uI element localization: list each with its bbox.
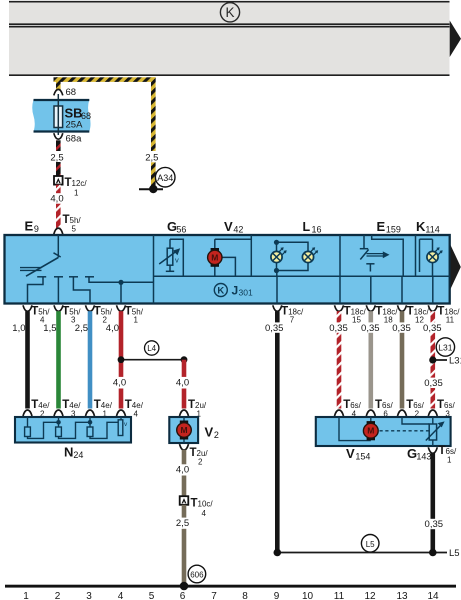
dashed coupling V154 to G143 — [380, 430, 430, 432]
svg-text:T: T — [407, 305, 414, 317]
node K circle label — [220, 3, 239, 22]
svg-text:V: V — [224, 219, 233, 234]
svg-text:K: K — [217, 286, 224, 297]
svg-text:68a: 68a — [66, 134, 83, 145]
svg-text:T: T — [344, 305, 351, 317]
svg-text:T: T — [406, 399, 413, 411]
lamp K114 wiring — [420, 238, 433, 240]
svg-text:0,35: 0,35 — [423, 323, 442, 334]
connector T12c/1 — [54, 176, 63, 185]
blower motor V2 box — [169, 417, 198, 443]
E9 contact 4 and output rail — [85, 276, 94, 278]
svg-text:T: T — [439, 445, 446, 457]
svg-text:154: 154 — [355, 452, 370, 462]
svg-text:14: 14 — [427, 591, 439, 600]
svg-text:T: T — [63, 214, 70, 226]
svg-text:10c/: 10c/ — [198, 499, 214, 508]
lamp L16 left — [271, 251, 282, 262]
motor V2 — [180, 421, 188, 425]
pin T4e/2 — [23, 410, 32, 416]
pin T6s/6 — [366, 410, 375, 416]
sensor G143 element — [432, 417, 434, 424]
svg-text:T: T — [94, 399, 101, 411]
lamp L16 right — [302, 251, 313, 262]
node L4 circle label — [145, 341, 159, 355]
svg-text:2: 2 — [55, 591, 61, 600]
wire red L4 to T2u/1 — [182, 360, 187, 378]
positioning motor V154 / sensor G143 box — [316, 417, 451, 446]
pin T18c/15 — [335, 305, 344, 311]
wire from T18c/18 — [369, 311, 374, 408]
node L31 junction — [433, 359, 447, 361]
motor V42 — [215, 238, 252, 240]
svg-text:68: 68 — [66, 87, 77, 98]
control unit J301 box — [5, 235, 450, 304]
svg-text:2,5: 2,5 — [75, 323, 88, 334]
svg-text:143: 143 — [416, 452, 431, 462]
svg-text:606: 606 — [190, 570, 204, 579]
svg-text:M: M — [367, 426, 374, 436]
pin T18c/11 — [428, 305, 437, 311]
svg-text:1: 1 — [134, 315, 139, 324]
svg-text:2,5: 2,5 — [145, 152, 158, 163]
svg-text:2,5: 2,5 — [50, 152, 63, 163]
harness band upper — [9, 2, 450, 25]
svg-text:4,0: 4,0 — [50, 194, 63, 205]
wire size label 4,0 — [48, 193, 66, 203]
svg-text:7: 7 — [290, 315, 295, 324]
wire size label 0,35 below L31 — [422, 378, 445, 388]
svg-text:T: T — [375, 305, 382, 317]
svg-text:T: T — [281, 305, 288, 317]
resistor pack N24 box — [15, 417, 131, 443]
wire black/red from fuse to T12c — [56, 140, 61, 151]
continuation arrow right of J301 — [451, 245, 461, 289]
svg-text:v: v — [175, 256, 179, 265]
svg-text:T: T — [62, 399, 69, 411]
N24 internal wiring — [27, 417, 29, 427]
pin T5h/3 — [54, 305, 63, 311]
svg-text:T: T — [437, 399, 444, 411]
wire black T6s/1 to L5 — [431, 453, 436, 553]
svg-text:16: 16 — [312, 224, 322, 234]
wire to pin T18c/11 — [432, 276, 434, 303]
lamp K114 — [427, 251, 438, 262]
svg-text:4,0: 4,0 — [106, 323, 119, 334]
svg-text:5: 5 — [72, 225, 77, 234]
svg-text:8: 8 — [242, 591, 248, 600]
pin T6s/3 — [428, 410, 437, 416]
svg-text:T: T — [125, 399, 132, 411]
svg-text:T: T — [343, 399, 350, 411]
svg-text:M: M — [180, 425, 187, 435]
ruler numbers — [23, 591, 439, 600]
svg-text:L4: L4 — [147, 344, 156, 353]
pin T18c/18 — [366, 305, 375, 311]
svg-text:V: V — [346, 446, 355, 461]
svg-text:68: 68 — [81, 111, 91, 121]
svg-text:0,35: 0,35 — [361, 323, 380, 334]
wire to pin T18c/12 — [401, 276, 403, 303]
svg-text:L31: L31 — [449, 356, 461, 367]
E9 junction node — [118, 280, 123, 285]
pin T6s/4 — [335, 410, 344, 416]
pin T2u/2 — [180, 444, 189, 450]
svg-text:J: J — [232, 284, 239, 298]
pin T18c/12 — [398, 305, 407, 311]
svg-text:1: 1 — [447, 455, 452, 464]
svg-text:E: E — [377, 219, 386, 234]
svg-text:T: T — [125, 305, 132, 317]
svg-text:T: T — [375, 399, 382, 411]
svg-text:11: 11 — [334, 591, 345, 600]
sensor G56 internals — [170, 239, 183, 276]
motor V154 — [367, 421, 375, 425]
E9 contact 1 and wire to T5h/4 — [37, 276, 46, 278]
svg-text:25A: 25A — [66, 120, 84, 131]
svg-text:301: 301 — [239, 287, 253, 297]
wire from T5h/2 — [88, 311, 93, 408]
pin 68a arrow out of fuse holder — [54, 133, 63, 139]
svg-text:2: 2 — [198, 458, 203, 467]
wire to pin T18c/18 — [370, 276, 372, 303]
svg-text:T: T — [62, 305, 69, 317]
svg-text:T: T — [437, 305, 444, 317]
wire red L4 to T4e/4 — [111, 377, 129, 387]
svg-text:1: 1 — [74, 189, 79, 198]
wire from T18c/12 — [400, 311, 405, 408]
svg-text:V: V — [205, 425, 214, 440]
svg-text:T: T — [190, 447, 197, 459]
svg-text:E: E — [25, 219, 34, 234]
wire lamp to pin T18c/7 — [276, 276, 278, 303]
svg-text:12: 12 — [364, 591, 376, 600]
pin T5h/5 into J301 — [54, 228, 63, 234]
node L5 wire — [277, 552, 447, 554]
ground point 606 circle — [188, 565, 206, 583]
pin 68 arrow into fuse holder — [54, 89, 63, 95]
connector T10c/4 — [180, 496, 189, 505]
wire tan V2 to T10c — [182, 450, 187, 466]
svg-text:4,0: 4,0 — [113, 377, 126, 388]
wire yellow/black horizontal from harness — [54, 77, 156, 82]
resistor N24 element 2 — [56, 427, 62, 437]
svg-text:3: 3 — [86, 591, 92, 600]
svg-text:0,35: 0,35 — [392, 323, 411, 334]
svg-text:1,0: 1,0 — [12, 323, 25, 334]
node L4 junction line — [121, 359, 184, 361]
wire from T18c/11 — [431, 311, 436, 408]
pin T4e/3 — [54, 410, 63, 416]
wire yellow/black down to ground A34 — [151, 77, 156, 151]
svg-text:L31: L31 — [438, 343, 452, 353]
svg-text:0,35: 0,35 — [425, 519, 444, 530]
svg-text:1: 1 — [23, 591, 29, 600]
pin T18c/7 — [273, 305, 282, 311]
svg-text:L5: L5 — [366, 540, 375, 549]
svg-text:L: L — [303, 220, 311, 234]
wire from T5h/4 — [25, 311, 30, 408]
svg-text:56: 56 — [176, 224, 186, 234]
svg-text:SB: SB — [65, 106, 83, 121]
pin T4e/1 — [86, 410, 95, 416]
J301 internal separator — [154, 275, 450, 277]
J301 internal dividers — [153, 235, 155, 304]
svg-text:11: 11 — [446, 315, 455, 324]
svg-text:T: T — [191, 497, 198, 509]
switch E9 internals — [57, 235, 59, 258]
svg-text:A34: A34 — [157, 173, 173, 183]
svg-text:0,35: 0,35 — [329, 323, 348, 334]
wire yellow/black stub down to fuse SB68 — [56, 77, 61, 89]
node L31 circle label — [436, 338, 454, 356]
svg-text:5: 5 — [149, 591, 155, 600]
ground rail 606 — [5, 585, 456, 588]
svg-text:4: 4 — [118, 591, 124, 600]
fuse SB68 element — [54, 94, 63, 135]
svg-text:M: M — [211, 252, 218, 262]
pin T6s/2 — [398, 410, 407, 416]
resistor N24 element 1 — [25, 427, 31, 437]
wire from T5h/1 — [119, 311, 124, 377]
svg-text:10: 10 — [302, 591, 314, 600]
svg-text:13: 13 — [396, 591, 408, 600]
pin T4e/4 — [117, 410, 126, 416]
svg-text:4,0: 4,0 — [176, 377, 189, 388]
wire black T18c/7 to L5 — [275, 311, 280, 552]
G143 wiring from T6s/2 — [402, 417, 429, 424]
E159 bracket — [372, 235, 404, 276]
continuation arrow right of bands — [450, 21, 461, 58]
N24 sensing element v — [118, 420, 123, 436]
wire junction to T5h/1 — [120, 282, 122, 303]
svg-text:4: 4 — [202, 509, 207, 518]
switch E159 internals — [363, 235, 365, 249]
svg-text:4: 4 — [134, 409, 139, 418]
pin T2u/1 — [180, 410, 189, 416]
svg-text:9: 9 — [274, 591, 280, 600]
svg-text:L5: L5 — [449, 548, 460, 559]
svg-text:12c/: 12c/ — [72, 179, 88, 188]
svg-text:159: 159 — [386, 224, 401, 234]
svg-text:114: 114 — [425, 224, 439, 234]
svg-text:2: 2 — [214, 430, 219, 440]
pin T5h/4 — [23, 305, 32, 311]
harness band lower — [9, 27, 450, 76]
fuse holder SB68 box — [32, 100, 90, 132]
svg-text:6: 6 — [180, 591, 186, 600]
wire size label 2,5 (fuse branch) — [48, 152, 66, 162]
svg-text:24: 24 — [73, 450, 83, 460]
pin T5h/1 — [117, 305, 126, 311]
label K J301 inside box — [214, 284, 253, 298]
wire from T18c/15 — [337, 311, 342, 408]
svg-text:T: T — [94, 305, 101, 317]
svg-text:T: T — [65, 177, 72, 189]
svg-text:1,5: 1,5 — [43, 323, 56, 334]
ground junction dot — [180, 582, 189, 591]
svg-text:T: T — [31, 305, 38, 317]
svg-text:N: N — [64, 445, 73, 460]
E9 contact 2 and wire to T5h/3 — [54, 276, 63, 278]
svg-text:9: 9 — [34, 224, 39, 234]
wire red/white from T12c to J301 — [56, 185, 61, 194]
wire from T5h/3 — [56, 311, 61, 408]
svg-text:0,35: 0,35 — [265, 323, 284, 334]
ground symbol A34 — [139, 185, 163, 193]
wire tan T10c to ground 606 — [182, 505, 187, 519]
resistor N24 element 3 — [87, 427, 93, 437]
svg-text:K: K — [225, 5, 234, 20]
wire size label 2,5 (A34 branch) — [143, 152, 161, 162]
svg-text:T: T — [31, 399, 38, 411]
pin T5h/2 — [86, 305, 95, 311]
node L5 circle label — [361, 535, 379, 553]
svg-text:0,35: 0,35 — [424, 378, 443, 389]
svg-text:2,5: 2,5 — [176, 518, 189, 529]
E9 contact 3 and wire to T5h/2 — [69, 276, 78, 278]
svg-text:T: T — [188, 399, 195, 411]
V154 internal wiring — [339, 417, 371, 441]
svg-text:7: 7 — [211, 591, 217, 600]
ground designation circle A34 — [155, 167, 175, 187]
pin T6s/1 — [428, 447, 437, 453]
svg-text:4,0: 4,0 — [176, 465, 189, 476]
lamps L16 wiring — [277, 242, 309, 270]
svg-text:42: 42 — [233, 224, 243, 234]
